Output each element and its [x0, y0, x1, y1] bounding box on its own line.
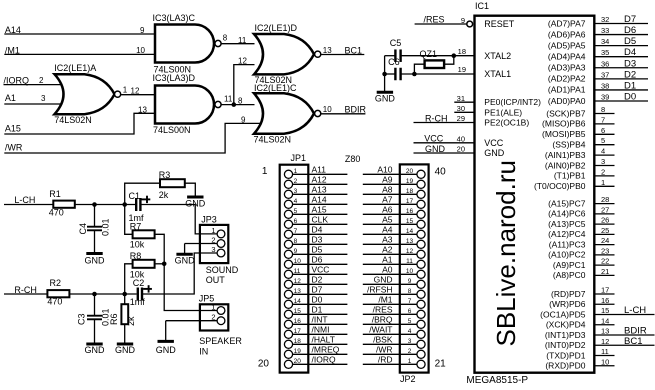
svg-text:C5: C5 [390, 38, 402, 48]
IC1 port C pin 26 (A13)PC5 [548, 216, 614, 229]
polarity plus mark of C1 [142, 198, 151, 200]
IC1 port A pin 38 (AD1)PA1 net D1 [548, 80, 648, 94]
JP2 pin 15 A5 [363, 215, 425, 229]
IC1 port B pin 2 (T1)PB1 [554, 167, 615, 180]
svg-text:10: 10 [323, 105, 332, 114]
svg-text:(RD)PD7: (RD)PD7 [551, 289, 586, 299]
IC1 port D pin 11 (TXD)PD1 [546, 347, 614, 360]
svg-text:D1: D1 [624, 80, 636, 91]
svg-text:3: 3 [41, 94, 46, 103]
svg-text:9: 9 [294, 248, 298, 255]
wire down to R7 [125, 205, 133, 235]
JP1 pin 18 /HALT [284, 335, 347, 349]
ground under R3 [187, 196, 203, 199]
svg-text:(AD5)PA5: (AD5)PA5 [548, 40, 586, 50]
IC1 port D pin 15 (OC1A)PD5 net L-CH [540, 305, 654, 319]
svg-text:0.01: 0.01 [100, 218, 110, 236]
ground under JP3 pin 2 [176, 253, 192, 256]
wire R2 to C2 [69, 293, 136, 295]
svg-text:BDIR: BDIR [345, 105, 367, 115]
junction dot C6 left [382, 72, 387, 77]
wire A1 to U2A pin 3 [4, 103, 62, 105]
svg-text:D2: D2 [624, 69, 636, 80]
svg-text:10: 10 [406, 268, 414, 275]
svg-text:23: 23 [601, 246, 609, 255]
JP2 pin 18 A8 [363, 185, 425, 199]
svg-text:35: 35 [601, 48, 609, 57]
svg-text:QZ1: QZ1 [420, 49, 438, 59]
wire R-CH to pin 29 [414, 122, 475, 124]
svg-text:1: 1 [262, 166, 268, 177]
svg-text:11: 11 [601, 347, 609, 356]
svg-text:19: 19 [406, 178, 414, 185]
svg-text:A2: A2 [382, 245, 393, 255]
svg-text:7: 7 [408, 298, 412, 305]
svg-text:36: 36 [601, 59, 609, 68]
svg-text:9: 9 [408, 278, 412, 285]
svg-text:R-CH: R-CH [14, 285, 37, 295]
svg-text:8: 8 [408, 288, 412, 295]
JP1 pin 12 D2 [284, 275, 347, 289]
JP1 pin 8 D3 [284, 235, 347, 249]
svg-text:1: 1 [408, 358, 412, 365]
JP3 pin 3 circle [217, 249, 225, 257]
svg-text:JP2: JP2 [400, 374, 416, 384]
svg-text:39: 39 [601, 92, 609, 101]
svg-text:R6: R6 [109, 313, 119, 325]
wire R8 to mix node [155, 263, 165, 265]
IC1 port B pin 5 (SS)PB4 [552, 136, 614, 149]
wire crystal right lead [444, 56, 454, 64]
svg-text:15: 15 [601, 306, 609, 315]
svg-text:R3: R3 [159, 170, 171, 180]
svg-text:JP1: JP1 [291, 153, 307, 163]
svg-text:(SS)PB4: (SS)PB4 [552, 140, 585, 150]
svg-text:18: 18 [458, 47, 466, 56]
svg-text:/MREQ: /MREQ [312, 345, 340, 355]
IC1 port A pin 34 (AD5)PA5 net D5 [548, 36, 648, 50]
output bubble of U3C [215, 40, 221, 46]
svg-text:R1: R1 [49, 189, 61, 199]
svg-text:D3: D3 [624, 58, 636, 69]
svg-text:(AD6)PA6: (AD6)PA6 [548, 29, 586, 39]
svg-text:JP3: JP3 [201, 215, 217, 225]
IC1 port B pin 1 (T0/OC0)PB0 [534, 178, 615, 191]
svg-text:1: 1 [294, 168, 298, 175]
resistor R6 vertical [124, 294, 126, 304]
svg-text:D5: D5 [624, 36, 636, 47]
IC1 port B pin 7 (MISO)PB6 [542, 115, 614, 128]
svg-text:XTAL2: XTAL2 [484, 51, 511, 61]
IC1 port D pin 17 (RD)PD7 [551, 286, 614, 299]
junction dot C3 branch [92, 292, 97, 297]
svg-text:3: 3 [408, 338, 412, 345]
ground under C4 [86, 252, 102, 255]
svg-text:D1: D1 [312, 305, 323, 315]
svg-text:/M1: /M1 [378, 295, 392, 305]
svg-text:1mf: 1mf [130, 297, 146, 307]
IC1 port A pin 32 (AD7)PA7 net D7 [548, 14, 648, 28]
capacitor C5 [394, 49, 396, 62]
svg-text:D6: D6 [624, 25, 636, 36]
svg-text:RESET: RESET [484, 19, 515, 29]
svg-text:20: 20 [294, 358, 302, 365]
JP2 pin 11 A1 [363, 255, 425, 269]
svg-text:GND: GND [115, 345, 136, 355]
wire C5/C6 left vertical [384, 56, 386, 92]
wire crystal left lead [414, 64, 424, 74]
svg-text:11: 11 [406, 258, 413, 265]
svg-text:16: 16 [294, 318, 302, 325]
ground under JP5 pin 2 [158, 340, 174, 343]
svg-text:11: 11 [238, 36, 247, 45]
svg-text:8: 8 [238, 96, 243, 105]
svg-text:34: 34 [601, 37, 609, 46]
svg-text:6: 6 [408, 308, 412, 315]
junction dot crystal to XTAL1 [412, 72, 417, 77]
svg-text:C2: C2 [133, 278, 145, 288]
JP2 pin 13 A3 [363, 235, 425, 249]
svg-text:22: 22 [601, 257, 609, 266]
JP1 pin 6 CLK [284, 215, 347, 229]
IC1 port B pin 4 (AIN1)PB3 [545, 147, 615, 160]
svg-text:13: 13 [406, 238, 414, 245]
JP2 pin 9 GND [363, 275, 425, 289]
svg-text:PE1(ALE): PE1(ALE) [484, 107, 522, 117]
IC1 port A pin 33 (AD6)PA6 net D6 [548, 25, 648, 39]
svg-text:13: 13 [601, 327, 609, 336]
NOR gate U2C IC2(LE1)C 74LS02N [254, 93, 314, 133]
JP2 pin 12 A2 [363, 245, 425, 259]
JP1 pin 7 D4 [284, 225, 347, 239]
svg-text:A8: A8 [382, 185, 393, 195]
JP2 pin 16 A6 [363, 205, 425, 219]
svg-text:GND: GND [484, 148, 505, 158]
svg-text:R-CH: R-CH [425, 113, 448, 123]
IC1 port D pin 12 (INT0)PD2 net BC1 [545, 336, 655, 350]
svg-text:17: 17 [294, 328, 302, 335]
svg-text:BC1: BC1 [624, 336, 642, 347]
capacitor C3 [87, 315, 102, 317]
svg-text:IC2(LE1)C: IC2(LE1)C [254, 83, 297, 93]
svg-text:20: 20 [258, 358, 270, 369]
junction dot R6/R8 branch [122, 292, 127, 297]
svg-text:5: 5 [601, 136, 605, 145]
NAND gate U3D IC3(LA3)D 74LS00N [155, 86, 214, 124]
svg-text:D3: D3 [312, 235, 323, 245]
resistor R7 [133, 230, 155, 238]
svg-text:13: 13 [138, 105, 147, 114]
svg-text:(T1)PB1: (T1)PB1 [554, 171, 586, 181]
svg-text:(A9)PC1: (A9)PC1 [553, 260, 586, 270]
svg-text:(T0/OC0)PB0: (T0/OC0)PB0 [534, 181, 586, 191]
svg-text:/HALT: /HALT [312, 335, 335, 345]
svg-text:10: 10 [136, 46, 145, 55]
JP1 pin 19 /MREQ [284, 345, 347, 359]
JP1 pin 14 D0 [284, 295, 347, 309]
wire up to R3 [125, 183, 160, 204]
svg-text:A10: A10 [377, 165, 392, 175]
wire U3D output to U2C pin 8 [221, 104, 254, 106]
svg-text:32: 32 [601, 15, 609, 24]
svg-text:(A12)PC4: (A12)PC4 [548, 229, 586, 239]
svg-text:2: 2 [211, 313, 215, 322]
IC1 port C pin 24 (A11)PC3 [549, 236, 615, 249]
wire R3 to ground [185, 183, 196, 196]
svg-text:C3: C3 [77, 313, 87, 325]
JP1 pin 9 D5 [284, 245, 347, 259]
wire up to R8 [125, 264, 133, 294]
JP1 pin 5 A15 [284, 205, 347, 219]
ground under C3 [86, 343, 102, 346]
svg-text:17: 17 [601, 286, 609, 295]
svg-text:R2: R2 [50, 278, 62, 288]
wire XTAL2 row through C5 [385, 55, 396, 57]
svg-text:26: 26 [601, 216, 609, 225]
wire U2A output to U3D pin 12 [121, 94, 155, 96]
svg-text:D2: D2 [312, 275, 323, 285]
svg-text:14: 14 [406, 228, 414, 235]
capacitor C1 electrolytic [135, 198, 137, 211]
svg-text:PE2(OC1B): PE2(OC1B) [484, 118, 529, 128]
JP2 pin 2 /WR [363, 345, 425, 359]
svg-text:29: 29 [457, 114, 465, 123]
capacitor C6 [394, 68, 396, 81]
JP5 pin 1 circle [217, 307, 225, 315]
JP1 pin 10 D6 [284, 255, 347, 269]
svg-text:4: 4 [408, 328, 412, 335]
svg-text:A1: A1 [382, 255, 393, 265]
JP2 pin 5 /BRQ [363, 315, 425, 329]
svg-text:74LS00N: 74LS00N [153, 125, 191, 135]
JP2 pin 1 /RD [363, 355, 425, 369]
svg-text:14: 14 [601, 316, 609, 325]
svg-text:L-CH: L-CH [14, 195, 35, 205]
svg-text:21: 21 [601, 267, 609, 276]
svg-text:SOUND: SOUND [206, 265, 239, 275]
IC1 port C pin 25 (A12)PC4 [548, 226, 614, 239]
junction dot crystal to XTAL2 [452, 53, 457, 58]
IC1 port C pin 23 (A10)PC2 [548, 246, 614, 259]
svg-text:A3: A3 [382, 235, 393, 245]
svg-text:(AD1)PA1: (AD1)PA1 [548, 85, 586, 95]
svg-text:2: 2 [294, 178, 298, 185]
svg-text:17: 17 [406, 198, 414, 205]
svg-text:R8: R8 [130, 251, 142, 261]
resistor R2 [47, 290, 69, 297]
svg-text:74LS02N: 74LS02N [254, 135, 292, 145]
wire mix node to JP5 pin 1 [164, 264, 217, 311]
svg-text:IC3(LA3)D: IC3(LA3)D [153, 73, 196, 83]
svg-text:1: 1 [211, 226, 215, 235]
inversion bubble RESET pin 9 [467, 21, 473, 27]
svg-text:D4: D4 [624, 47, 636, 58]
junction dot U3D output node [232, 102, 237, 107]
stub pin 31 [454, 101, 474, 103]
svg-text:40: 40 [435, 166, 447, 177]
svg-text:16: 16 [406, 208, 414, 215]
svg-text:14: 14 [294, 298, 302, 305]
svg-text:(AD4)PA4: (AD4)PA4 [548, 52, 586, 62]
wire U2D output BC1 [321, 54, 365, 56]
svg-text:D5: D5 [312, 245, 323, 255]
svg-text:PE0(ICP/INT2): PE0(ICP/INT2) [484, 97, 541, 107]
wire C2 to JP3 pin 3 [142, 253, 217, 294]
wire L-CH input [4, 204, 53, 206]
svg-text:GND: GND [375, 94, 396, 104]
svg-text:(MISO)PB6: (MISO)PB6 [542, 119, 586, 129]
stub pin 30 [454, 111, 474, 113]
svg-text:11: 11 [294, 268, 301, 275]
svg-text:31: 31 [457, 94, 465, 103]
svg-text:1: 1 [123, 85, 128, 94]
wire XTAL1 row through C6 [385, 73, 396, 75]
svg-text:3: 3 [601, 157, 605, 166]
svg-text:Z80: Z80 [345, 154, 361, 164]
JP1 pin 13 D7 [284, 285, 347, 299]
svg-text:2: 2 [601, 167, 605, 176]
NOR gate U2D IC2(LE1)D 74LS02N [254, 34, 314, 74]
JP5 pin 2 line [166, 320, 218, 322]
svg-text:A15: A15 [5, 124, 21, 134]
svg-text:A12: A12 [312, 175, 327, 185]
svg-text:5: 5 [294, 208, 298, 215]
svg-text:SBLive.narod.ru: SBLive.narod.ru [491, 160, 521, 346]
svg-text:(A14)PC6: (A14)PC6 [548, 209, 586, 219]
svg-text:A11: A11 [312, 165, 327, 175]
svg-text:74LS02N: 74LS02N [54, 115, 92, 125]
JP2 pin 14 A4 [363, 225, 425, 239]
svg-text:33: 33 [601, 26, 609, 35]
svg-text:2: 2 [211, 235, 215, 244]
svg-text:/INT: /INT [312, 315, 328, 325]
JP3 pin 2 circle [217, 240, 225, 248]
svg-text:A14: A14 [312, 195, 327, 205]
svg-text:GND: GND [175, 255, 196, 265]
wire R7 to mix node [155, 234, 165, 264]
capacitor C4 [87, 226, 102, 228]
JP2 pin 7 /M1 [363, 295, 425, 309]
svg-text:19: 19 [294, 348, 302, 355]
svg-text:/BRQ: /BRQ [372, 315, 393, 325]
svg-text:(A11)PC3: (A11)PC3 [549, 239, 586, 249]
svg-text:10k: 10k [130, 239, 145, 249]
svg-text:(AD3)PA3: (AD3)PA3 [548, 63, 586, 73]
JP1 pin 2 A12 [284, 175, 347, 189]
svg-text:A6: A6 [382, 205, 393, 215]
junction dot C4 branch [92, 202, 97, 207]
svg-text:37: 37 [601, 70, 609, 79]
resistor R8 [133, 260, 155, 268]
svg-text:(A8)PC0: (A8)PC0 [553, 270, 586, 280]
wire A14 to U3C pin 9 [4, 33, 155, 35]
IC1 port C pin 21 (A8)PC0 [553, 267, 615, 280]
JP2 pin 3 /BSK [363, 335, 425, 349]
IC1 port B pin 3 (AIN0)PB2 [545, 157, 615, 170]
output bubble of U2D [315, 51, 321, 57]
svg-text:8: 8 [601, 105, 605, 114]
svg-text:(XCK)PD4: (XCK)PD4 [546, 320, 586, 330]
JP3 pin 1 circle [217, 230, 225, 238]
connector JP5 SPEAKER IN [200, 304, 228, 330]
svg-text:4: 4 [294, 198, 298, 205]
svg-text:6: 6 [294, 218, 298, 225]
ground under R6 [117, 343, 133, 346]
svg-text:C1: C1 [129, 191, 141, 201]
svg-text:1: 1 [211, 302, 215, 311]
svg-text:(MOSI)PB5: (MOSI)PB5 [542, 129, 586, 139]
JP1 pin 1 A11 [284, 165, 347, 179]
svg-text:D0: D0 [312, 295, 323, 305]
JP1 pin 4 A14 [284, 195, 347, 209]
svg-text:GND: GND [156, 345, 177, 355]
wire C1 to JP3 pin 1 [140, 205, 217, 234]
svg-text:D6: D6 [312, 255, 323, 265]
connector JP3 SOUND OUT [200, 225, 228, 263]
polarity plus mark of C2 [143, 288, 152, 290]
svg-text:(INT0)PD2: (INT0)PD2 [545, 340, 586, 350]
JP1 pin 16 /INT [284, 315, 347, 329]
svg-text:A9: A9 [382, 175, 393, 185]
crystal QZ1 [425, 60, 445, 68]
svg-text:2k: 2k [126, 316, 136, 326]
JP2 pin 17 A7 [363, 195, 425, 209]
svg-text:25: 25 [601, 226, 609, 235]
NOR gate U2A IC2(LE1)A 74LS02N [55, 74, 115, 114]
svg-text:15: 15 [406, 218, 414, 225]
svg-text:MEGA8515-P: MEGA8515-P [466, 375, 528, 386]
ground of crystal circuit [377, 91, 393, 94]
svg-text:8: 8 [294, 238, 298, 245]
svg-text:15: 15 [294, 308, 302, 315]
svg-text:3: 3 [294, 188, 298, 195]
svg-text:10: 10 [601, 357, 609, 366]
IC1 port A pin 36 (AD3)PA3 net D3 [548, 58, 648, 72]
JP1 pin 3 A13 [284, 185, 347, 199]
svg-text:A5: A5 [382, 215, 393, 225]
wire A15 to U3D pin 13 [4, 113, 155, 134]
svg-text:16: 16 [601, 296, 609, 305]
svg-text:13: 13 [294, 288, 302, 295]
svg-text:2: 2 [39, 76, 44, 85]
output bubble of U2C [315, 110, 321, 116]
svg-text:2: 2 [408, 348, 412, 355]
JP1 pin 11 VCC [284, 265, 347, 279]
IC1 port D pin 16 (WR)PD6 [549, 296, 614, 309]
IC1 port B pin 6 (MOSI)PB5 [542, 126, 614, 139]
svg-text:(RXD)PD0: (RXD)PD0 [545, 361, 585, 371]
svg-text:A13: A13 [312, 185, 327, 195]
JP2 pin 10 A0 [363, 265, 425, 279]
svg-text:A0: A0 [382, 265, 393, 275]
svg-text:A4: A4 [382, 225, 393, 235]
svg-text:6: 6 [601, 126, 605, 135]
NAND gate U3C IC3(LA3)C 74LS00N [155, 25, 214, 63]
JP2 pin 4 /WAIT [363, 325, 425, 339]
IC1 port C pin 22 (A9)PC1 [553, 257, 615, 270]
svg-text:/WR: /WR [5, 143, 23, 153]
svg-text:13: 13 [323, 46, 332, 55]
svg-text:3: 3 [211, 245, 215, 254]
capacitor C2 electrolytic [137, 288, 139, 301]
svg-text:(WR)PD6: (WR)PD6 [549, 299, 586, 309]
svg-text:40: 40 [457, 134, 465, 143]
svg-text:1: 1 [601, 178, 605, 187]
svg-text:A1: A1 [5, 93, 16, 103]
IC1 port A pin 35 (AD4)PA4 net D4 [548, 47, 648, 61]
svg-text:20: 20 [457, 145, 465, 154]
svg-text:GND: GND [85, 345, 106, 355]
